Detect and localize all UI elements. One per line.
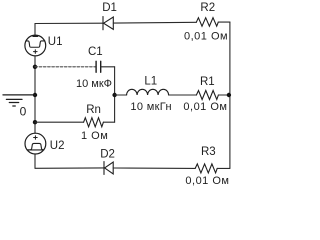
svg-text:U2: U2	[50, 140, 65, 152]
capacitor C1	[96, 61, 101, 72]
resistor R1	[196, 91, 218, 100]
svg-text:R1: R1	[200, 76, 215, 88]
svg-text:10 мкГн: 10 мкГн	[130, 101, 172, 113]
svg-text:0,01 Ом: 0,01 Ом	[185, 175, 229, 187]
diode D1	[103, 17, 113, 30]
svg-text:0,01 Ом: 0,01 Ом	[184, 31, 228, 43]
wire R3 to right rail	[217, 167, 230, 169]
wire U2 bottom lead	[34, 154, 36, 168]
wire left rail	[34, 56, 36, 133]
wire right rail	[229, 22, 231, 168]
svg-text:0,01 Ом: 0,01 Ом	[183, 101, 227, 113]
diode D2	[104, 162, 113, 175]
svg-text:0: 0	[20, 105, 27, 119]
wire rail to Rn	[35, 121, 84, 123]
svg-text:1 Ом: 1 Ом	[81, 130, 108, 142]
resistor R2	[196, 18, 218, 27]
wire R2 to right rail	[218, 21, 230, 23]
wire C1 to mid rail	[101, 66, 115, 68]
resistor Rn	[84, 118, 104, 127]
junction node mid rail	[112, 93, 116, 97]
svg-text:D2: D2	[100, 149, 115, 161]
wire bottom rail to D2	[35, 167, 104, 169]
wire Rn to mid rail	[103, 121, 114, 123]
wire C1 left	[35, 66, 96, 68]
svg-text:10 мкФ: 10 мкФ	[76, 78, 112, 90]
svg-text:C1: C1	[88, 46, 103, 58]
svg-text:R3: R3	[201, 146, 216, 158]
source U2	[25, 133, 46, 154]
wire U1 top lead	[34, 24, 36, 36]
svg-text:D1: D1	[102, 2, 117, 14]
wire L1 to R1	[169, 94, 197, 96]
svg-text:R2: R2	[200, 2, 215, 14]
svg-text:L1: L1	[144, 75, 157, 87]
junction node U1/C1	[33, 65, 37, 69]
ground wire	[3, 94, 35, 96]
ground symbol	[6, 99, 22, 106]
svg-text:U1: U1	[48, 36, 63, 48]
wire mid vertical rail	[114, 67, 116, 122]
svg-text:Rn: Rn	[86, 104, 101, 116]
junction node right rail	[227, 93, 231, 97]
junction node ground	[33, 93, 37, 97]
junction node Rn row	[33, 120, 37, 124]
source U1	[25, 35, 46, 56]
wire D1 to R2	[113, 21, 196, 24]
inductor L1	[127, 89, 169, 95]
wire R1 to right rail	[218, 94, 230, 96]
resistor R3	[195, 164, 217, 173]
wire D2 to R3	[113, 167, 195, 169]
wire mid rail to L1	[115, 94, 127, 96]
wire top rail U1 to D1	[35, 22, 103, 24]
